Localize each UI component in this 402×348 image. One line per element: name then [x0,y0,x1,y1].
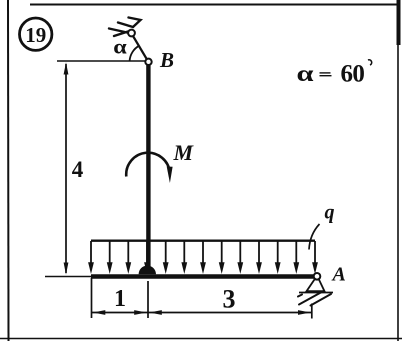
distributed load arrow 9 [237,241,243,274]
distributed load arrow 11 [275,241,281,274]
svg-text:M: M [173,140,195,165]
moment arc M [126,153,170,177]
pin circle A [314,273,321,280]
distributed load arrow 13 [312,241,318,274]
distributed load top line [91,239,315,241]
problem number 19 badge [20,18,52,50]
beam extension line left [45,276,91,278]
distributed load arrow 8 [219,241,225,274]
dimension tick below bar [147,281,149,318]
beam (horizontal, A to left end) [91,274,315,279]
pin support triangle at A [307,279,325,291]
svg-text:1: 1 [114,286,126,312]
pin circle B [145,59,151,65]
dimension tick below A [311,304,313,319]
distributed load arrow 5 [163,241,169,274]
svg-text:19: 19 [25,23,46,47]
link rod from top support to B [133,36,147,60]
distributed load arrow 6 [181,241,187,274]
distributed load arrow 2 [107,241,113,274]
svg-text:α: α [297,61,314,87]
dimension line 3 (with arrows) [148,310,312,315]
svg-text:4: 4 [72,157,84,182]
vertical bar (column) [146,65,150,273]
leader line for q [309,224,320,250]
distributed load arrow 12 [293,241,299,274]
moment arrowhead [167,167,173,184]
horizontal extension line at B level [57,60,146,62]
svg-text:B: B [159,48,174,72]
svg-text:q: q [325,202,335,224]
angle arc alpha at B [130,46,140,61]
svg-text:α: α [113,35,127,58]
svg-text:3: 3 [223,284,236,313]
ground line at A [299,292,333,294]
distributed load arrow 3 [125,241,131,274]
distributed load arrow 4 (behind bar) [144,241,150,274]
dimension line 4 (vertical, with arrows) [64,62,69,274]
distributed load arrow 7 [200,241,206,274]
dimension tick at beam left end [91,278,93,318]
dimension line 1 (with arrows) [92,310,149,315]
support hatching at top of link [109,18,141,37]
hatching at A support [298,291,331,306]
equation alpha = 60 deg [297,60,372,87]
pin circle at top support [128,30,135,37]
rigid joint dome at bar-beam junction [139,266,156,275]
svg-text:60: 60 [341,60,365,87]
distributed load arrow 10 [256,241,262,274]
svg-text:A: A [331,264,346,286]
distributed load arrow 1 [88,241,94,274]
